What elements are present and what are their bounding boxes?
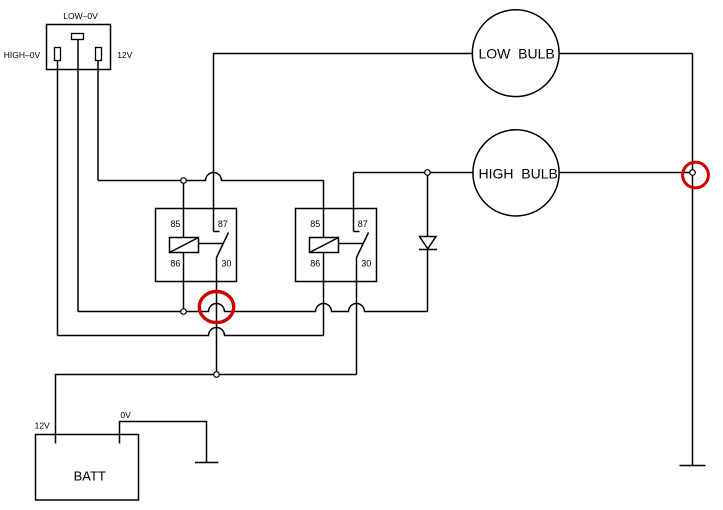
wire right vertical to ground: [692, 54, 694, 466]
red highlight circle at right junction: [683, 162, 709, 188]
svg-text:30: 30: [361, 259, 371, 269]
wire relay K1 coil bottom: [183, 253, 185, 312]
svg-text:LOW–0V: LOW–0V: [63, 11, 98, 21]
wire LOW BULB right: [559, 53, 693, 55]
relay K1 link: [199, 243, 223, 245]
relay K2 coil diagonal: [310, 238, 339, 253]
relay K2 box: [296, 209, 377, 282]
wire HIGH-0V vertical: [57, 61, 59, 336]
svg-text:30: 30: [221, 259, 231, 269]
connector J1 pin LOW-0V: [72, 34, 84, 40]
diode D1 triangle: [420, 237, 437, 249]
wire HIGH BULB right: [559, 172, 693, 174]
battery BATT box: [36, 435, 139, 501]
svg-text:86: 86: [170, 259, 180, 269]
svg-text:12V: 12V: [35, 421, 50, 431]
ground battery: [195, 462, 219, 464]
wire battery 12V run: [56, 375, 357, 444]
wire 12V horizontal run with hop: [98, 173, 324, 181]
svg-text:87: 87: [358, 219, 368, 229]
svg-text:87: 87: [218, 219, 228, 229]
wire diode top feed: [427, 173, 429, 237]
relay K2 contact 87 stub: [354, 231, 360, 233]
red highlight circle at relay K1 hop: [199, 292, 233, 323]
wire 12V vertical: [97, 61, 99, 181]
connector J1 pin HIGH-0V: [55, 48, 61, 61]
relay K2 blade: [357, 233, 369, 258]
wire relay K2 87 up: [353, 173, 355, 232]
wire 12V down to relay K2 coil: [323, 181, 325, 238]
relay K2 coil: [310, 238, 339, 253]
junction node at relay K1 coil top: [181, 178, 187, 184]
wire LOW-0V horizontal run with three hops: [78, 304, 428, 312]
wire HIGH BULB left: [354, 172, 474, 174]
wire relay K2 30 down: [356, 258, 358, 375]
wire diode bottom: [427, 250, 429, 312]
svg-text:12V: 12V: [117, 50, 132, 60]
svg-text:0V: 0V: [120, 410, 131, 420]
lamp LOW BULB circle: [472, 10, 559, 97]
junction node at relay K1 30 / battery 12V: [214, 372, 220, 378]
relay K1 coil: [170, 238, 199, 253]
svg-text:85: 85: [310, 219, 320, 229]
relay K1 blade: [217, 233, 229, 258]
wire LOW BULB to relay K1 87: [214, 54, 473, 232]
wire battery 0V run: [120, 422, 207, 463]
relay K2 link: [339, 243, 363, 245]
svg-text:86: 86: [310, 259, 320, 269]
junction node at HIGH BULB right / ground wire: [690, 170, 696, 176]
svg-text:85: 85: [170, 219, 180, 229]
svg-text:BATT: BATT: [74, 469, 106, 484]
lamp HIGH BULB circle: [473, 130, 559, 216]
wire HIGH-0V horizontal run with hop: [58, 328, 324, 336]
relay K1 coil diagonal: [170, 238, 199, 253]
relay K1 contact 87 stub: [214, 231, 220, 233]
junction node at relay K1 coil bottom: [181, 309, 187, 315]
connector J1 box: [47, 25, 111, 70]
svg-text:LOW BULB: LOW BULB: [478, 46, 554, 62]
wire relay K1 coil top: [183, 181, 185, 238]
svg-text:HIGH–0V: HIGH–0V: [4, 50, 41, 60]
wire LOW-0V vertical: [77, 40, 79, 312]
ground right: [680, 465, 706, 467]
relay K1 box: [156, 209, 237, 282]
svg-text:HIGH BULB: HIGH BULB: [479, 166, 558, 182]
wire relay K2 coil bottom: [323, 253, 325, 336]
connector J1 pin 12V: [96, 48, 102, 61]
wire relay K1 30 down: [216, 258, 218, 375]
junction node at diode / HIGH BULB: [425, 170, 431, 176]
diode D1 cathode bar: [419, 249, 437, 251]
